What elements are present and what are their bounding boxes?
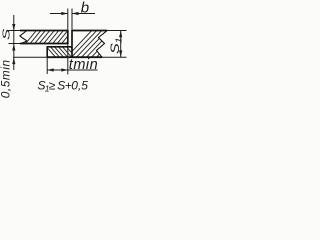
label S1 (rotated) xyxy=(109,37,124,54)
svg-text:0,5: 0,5 xyxy=(71,79,88,93)
svg-text:≥: ≥ xyxy=(49,79,56,93)
svg-text:S: S xyxy=(109,43,123,54)
break zigzag at right end of thick sheet xyxy=(97,31,107,57)
hatching of backing strip (opposite direction) xyxy=(44,44,82,60)
dimension b: right dimension line with arrow xyxy=(72,13,95,15)
top surface contour of thin sheet + left extension tick xyxy=(9,30,21,32)
dimension b: extension line above thick sheet left edge xyxy=(71,9,73,31)
bottom contour of thin sheet + left extension tick xyxy=(9,43,21,45)
arrow up to bottom of thin sheet xyxy=(12,44,15,51)
arrow down to top surface xyxy=(12,24,15,31)
bottom contour line (strip + thick sheet) with extensions both sides xyxy=(13,56,48,58)
svg-text:S: S xyxy=(0,28,12,40)
svg-text:tmin: tmin xyxy=(69,57,98,73)
left edge of thick sheet xyxy=(71,30,73,58)
top contour of backing strip xyxy=(47,46,72,48)
svg-text:1: 1 xyxy=(115,37,124,43)
hatching of left thin sheet (S) xyxy=(22,26,81,48)
formula S1 >= S + 0,5 xyxy=(38,79,89,94)
dimension b: extension line above thin sheet right edge xyxy=(67,9,69,31)
left edge of backing strip xyxy=(46,46,48,57)
dimension S / 0,5min: vertical dimension line at left xyxy=(13,15,15,70)
dimension t min: extension line below strip left edge xyxy=(46,58,48,75)
dimension b: left dimension line with arrow xyxy=(50,13,68,15)
break zigzag at left end of thin sheet xyxy=(20,31,27,44)
dimension t min: extension line from thin sheet right edge down xyxy=(67,44,69,75)
dimension S1: vertical line at right xyxy=(120,31,122,58)
top surface contour of thick sheet + right extension xyxy=(72,30,107,32)
svg-text:b: b xyxy=(81,0,89,16)
right edge of thin sheet xyxy=(67,30,69,44)
svg-text:0,5min: 0,5min xyxy=(0,59,13,98)
arrow up to bottom contour (0,5min) xyxy=(12,58,15,65)
dimension t min: dimension line xyxy=(47,69,97,71)
hatching of right thick sheet (S1) xyxy=(62,26,126,62)
